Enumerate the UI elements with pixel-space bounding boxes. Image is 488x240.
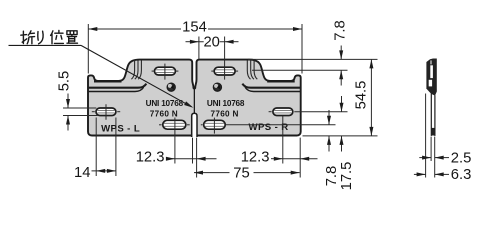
svg-text:12.3: 12.3 (136, 149, 165, 165)
label UNI 10768 left (146, 99, 184, 108)
label 折り位置 (fold position) (21, 30, 78, 43)
leader line to fold (81, 45, 193, 107)
left hook lower fold line 1 (89, 84, 147, 88)
side view bottom plug (431, 128, 434, 136)
top slot left crosshair (152, 64, 179, 80)
svg-text:7760 N: 7760 N (210, 110, 238, 119)
svg-text:WPS - L: WPS - L (101, 124, 140, 135)
dimension 75 (194, 165, 300, 181)
svg-text:6.3: 6.3 (451, 167, 472, 183)
top slot right crosshair (211, 70, 238, 72)
svg-text:UNI 10768: UNI 10768 (207, 99, 245, 108)
top edge extension line (248, 58, 378, 60)
dimension 17.5 (339, 96, 355, 190)
dimension 12.3 left (136, 118, 217, 178)
hook fold top extension line (252, 69, 348, 71)
label WPS - R (249, 122, 289, 133)
rivet circle right plate (213, 83, 221, 91)
svg-text:154: 154 (182, 20, 207, 36)
side view folded hook (dark profile) (426, 59, 436, 96)
dimension 12.3 right (241, 116, 318, 178)
svg-text:7.8: 7.8 (324, 166, 340, 187)
svg-text:54.5: 54.5 (353, 81, 369, 110)
dimension 7.8 bottom (324, 110, 340, 186)
right plate bend line 3 (247, 60, 250, 79)
bottom slot left crosshair stub (159, 124, 190, 126)
fold relief slot (192, 113, 197, 137)
svg-text:5.5: 5.5 (56, 71, 72, 92)
svg-text:20: 20 (203, 34, 219, 50)
left plate bend line 2 (135, 60, 138, 79)
side view sheet right face (434, 95, 436, 136)
right side slot crosshair stub (269, 111, 272, 113)
right slot centerline extension (294, 111, 347, 113)
left side slot crosshair (92, 104, 120, 120)
label UNI 10768 right (207, 99, 245, 108)
left hook channel bottom edge (94, 80, 122, 82)
dimension 2.5 sheet thickness (419, 94, 471, 178)
right plate bend line 1 (254, 60, 257, 79)
svg-text:75: 75 (233, 165, 249, 181)
dimension 6.3 overall depth (414, 167, 471, 183)
fold line (193, 89, 195, 114)
bottom slot right vertical centerline (201, 118, 215, 134)
svg-text:UNI 10768: UNI 10768 (146, 99, 184, 108)
dimension 14 slot length (74, 118, 116, 182)
svg-text:2.5: 2.5 (451, 150, 472, 166)
left plate bend line 3 (138, 60, 141, 79)
label WPS - L (101, 124, 140, 135)
bottom slot right plate (204, 120, 226, 129)
bracket outline (WPS-L + WPS-R joined at fold) (88, 60, 301, 136)
left side slot (5.5 x 14) (96, 108, 116, 116)
right hook lower fold line 1 (242, 84, 300, 88)
right hook lower fold line 2 (245, 87, 300, 91)
label 7760 N left (150, 110, 178, 119)
dimension 5.5 slot height (56, 71, 97, 131)
svg-text:12.3: 12.3 (241, 149, 270, 165)
bottom edge extension line (303, 135, 378, 137)
dimension 54.5 overall height (353, 59, 373, 135)
right hook channel bottom edge (267, 80, 295, 82)
top slot right plate (214, 67, 235, 75)
bottom slot centerline extension (226, 124, 336, 126)
leader underline (9, 44, 82, 46)
svg-text:17.5: 17.5 (339, 162, 355, 191)
label 7760 N right (210, 110, 238, 119)
svg-text:7.8: 7.8 (333, 20, 349, 41)
left hook lower fold line 2 (89, 87, 144, 91)
rivet circle left plate (167, 83, 175, 91)
dimension 7.8 top (333, 20, 349, 85)
side view sheet left face (430, 94, 432, 136)
right plate bend line 2 (251, 60, 254, 79)
svg-text:7760 N: 7760 N (150, 110, 178, 119)
dimension 20 slot offset (186, 34, 239, 79)
svg-text:14: 14 (74, 165, 90, 181)
top slot left plate (155, 67, 176, 75)
bottom slot left plate (163, 120, 186, 129)
left plate bend line 1 (131, 60, 134, 79)
right side slot (273, 108, 293, 116)
dimension 154 overall width (88, 20, 302, 74)
